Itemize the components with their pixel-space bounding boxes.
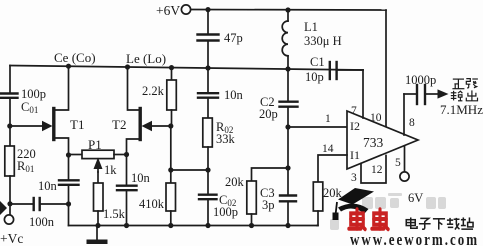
svg-text:1000p: 1000p	[405, 73, 436, 87]
wire 20k-left to C3 node	[252, 168, 289, 181]
potentiometer P1 1k	[69, 154, 83, 156]
svg-text:10n: 10n	[131, 171, 151, 185]
node junction T1 gate / R01	[7, 123, 12, 128]
node junction T2 source / P1 right	[124, 152, 129, 157]
node junction T1 source / P1	[66, 152, 71, 157]
svg-text:10n: 10n	[38, 179, 58, 193]
svg-text:20k: 20k	[323, 186, 343, 200]
node junction C02 bottom	[205, 223, 210, 228]
svg-text:www.eeworm.com: www.eeworm.com	[350, 230, 479, 246]
resistor 2.2k	[169, 65, 174, 70]
svg-text:100p: 100p	[21, 87, 46, 101]
wire down to C3 node	[287, 127, 289, 168]
svg-text:10n: 10n	[224, 88, 244, 102]
node junction 1.5k bottom	[95, 223, 100, 228]
svg-text:7: 7	[351, 105, 357, 117]
svg-text:10: 10	[370, 112, 382, 124]
resistor 1.5k	[97, 172, 99, 183]
svg-text:L1: L1	[304, 20, 318, 34]
terminal -6V	[400, 172, 409, 181]
svg-text:100p: 100p	[213, 205, 238, 219]
svg-text:I1: I1	[350, 148, 360, 162]
terminal +Vc	[4, 215, 13, 224]
svg-text:410k: 410k	[139, 197, 165, 211]
resistor 20k left	[247, 181, 256, 214]
svg-text:I2: I2	[350, 119, 360, 133]
resistor R02 33k	[203, 118, 213, 147]
svg-text:3: 3	[351, 172, 357, 184]
node junction 2.2k / T2 gate / 410k	[168, 123, 173, 128]
wire pin 8	[403, 94, 405, 135]
svg-text:Ce (Co): Ce (Co)	[54, 50, 96, 65]
node junction 20k-left bottom	[249, 223, 254, 228]
svg-text:33k: 33k	[216, 132, 236, 146]
watermark site name chars	[406, 217, 473, 229]
resistor 20k right	[313, 182, 323, 211]
transistor T2	[138, 109, 141, 140]
svg-text:330μ H: 330μ H	[304, 34, 342, 48]
svg-text:C1: C1	[310, 55, 325, 69]
svg-text:12: 12	[371, 164, 383, 176]
scan artifact left edge	[0, 201, 7, 215]
watermark faint gray text	[330, 193, 446, 230]
wire node down to 410k	[170, 126, 172, 183]
node junction R01 / 100n	[7, 201, 12, 206]
node junction rail T1 drain	[66, 64, 71, 69]
svg-text:20k: 20k	[225, 175, 245, 189]
node junction C3 top	[285, 165, 290, 170]
svg-text:T2: T2	[112, 117, 126, 132]
capacitor 100n	[10, 203, 33, 205]
svg-text:T1: T1	[70, 117, 84, 132]
node junction pin1 wire	[285, 124, 290, 129]
resistor 410k	[166, 183, 176, 211]
node junction rail T2 drain	[125, 64, 130, 69]
capacitor C3 3p	[287, 168, 289, 195]
svg-text:10p: 10p	[305, 70, 324, 84]
svg-text:R01: R01	[17, 159, 34, 174]
capacitor C01 100p	[1, 92, 18, 94]
svg-text:5: 5	[395, 157, 401, 169]
capacitor 10n (T1 source)	[68, 155, 70, 180]
wire y170 segment	[171, 169, 208, 171]
svg-text:6V: 6V	[408, 191, 423, 205]
wire pin 1	[288, 126, 347, 128]
svg-text:7.1MHz: 7.1MHz	[440, 102, 483, 117]
label sine output chinese	[451, 79, 478, 101]
node junction top rail at 47p	[205, 7, 210, 12]
svg-text:8: 8	[409, 117, 415, 129]
watermark www.eeworm.com	[350, 230, 479, 246]
resistor R01 220	[5, 146, 15, 176]
capacitor C02 100p	[207, 170, 209, 195]
wire pins 3-12 short	[361, 156, 386, 184]
watermark graduation cap	[333, 188, 375, 220]
capacitor 10n (T2 source)	[126, 155, 128, 186]
wire top +6V rail	[191, 9, 386, 12]
wire main horizontal rail Ce/Le	[10, 66, 363, 71]
capacitor 10n (top right)	[207, 68, 209, 93]
node junction 10n bottom rail	[124, 223, 129, 228]
wire left branch down from rail	[9, 66, 11, 94]
svg-text:47p: 47p	[224, 31, 243, 45]
capacitor C2 20p	[287, 69, 289, 102]
node junction 410k bottom	[168, 223, 173, 228]
svg-text:733: 733	[363, 135, 384, 150]
wire pin 14	[318, 155, 347, 182]
op-amp U1 733	[347, 111, 418, 169]
node junction y170 wire left	[168, 167, 173, 172]
wire pin 7	[362, 70, 364, 118]
capacitor 1000p output	[404, 93, 417, 95]
svg-text:Le (Lo): Le (Lo)	[126, 51, 166, 66]
node junction rail 47p	[205, 65, 210, 70]
svg-text:2.2k: 2.2k	[142, 84, 165, 98]
svg-text:1: 1	[325, 113, 331, 125]
svg-text:1k: 1k	[104, 163, 117, 177]
transistor T1	[10, 125, 43, 127]
svg-text:P1: P1	[88, 137, 102, 152]
capacitor C1 10p	[329, 62, 331, 79]
svg-text:14: 14	[322, 143, 334, 155]
svg-text:20p: 20p	[259, 107, 278, 121]
wire right corner down to pin10	[385, 10, 387, 128]
node junction C3 bottom	[285, 223, 290, 228]
svg-text:+Vc: +Vc	[0, 231, 23, 246]
node junction rail L1	[285, 66, 290, 71]
wire pin 5	[404, 146, 406, 172]
watermark red chong chars	[349, 209, 388, 229]
node junction top rail at L1	[285, 7, 290, 12]
ground	[96, 226, 98, 241]
svg-text:3p: 3p	[262, 198, 275, 212]
node junction y170 wire right	[205, 167, 210, 172]
wire bottom rail	[69, 225, 318, 227]
inductor L1 330uH	[287, 10, 289, 21]
svg-text:1.5k: 1.5k	[103, 207, 126, 221]
svg-text:+6V: +6V	[156, 3, 180, 18]
svg-text:100n: 100n	[29, 215, 55, 229]
capacitor 47p	[207, 10, 209, 35]
svg-text:C01: C01	[21, 100, 38, 115]
terminal +6V	[181, 5, 190, 14]
node junction 100n / source branch	[66, 201, 71, 206]
